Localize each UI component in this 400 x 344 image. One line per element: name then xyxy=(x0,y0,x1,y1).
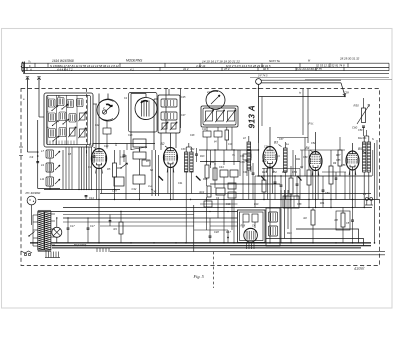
svg-text:C13: C13 xyxy=(228,144,233,146)
svg-text:C22: C22 xyxy=(95,124,100,127)
tube B2 envelope xyxy=(164,148,178,168)
svg-text:C58: C58 xyxy=(344,91,349,95)
svg-text:C37: C37 xyxy=(279,138,284,141)
svg-text:R13: R13 xyxy=(200,155,205,158)
capacitor C19 xyxy=(93,155,96,157)
choke box xyxy=(266,208,280,246)
svg-text:1616 W167868: 1616 W167868 xyxy=(52,59,74,63)
svg-text:B2: B2 xyxy=(161,142,165,146)
wire rail y211 xyxy=(51,211,238,213)
svg-text:41092: 41092 xyxy=(354,266,366,271)
tube B4 anode xyxy=(312,153,319,155)
capacitor C48 block xyxy=(252,214,258,222)
tube B1 grids xyxy=(94,153,104,155)
gang blob xyxy=(141,101,148,103)
legend extra rule right xyxy=(250,76,389,78)
chassis enclosure dashed border xyxy=(21,89,380,266)
wire speaker top xyxy=(364,135,369,137)
output transformer S13 winding b xyxy=(367,142,370,172)
mains plug xyxy=(365,198,368,201)
wire x120 mid xyxy=(119,150,121,165)
choke coil 1 xyxy=(269,212,278,222)
svg-text:913 A: 913 A xyxy=(248,105,257,129)
capacitor C4 xyxy=(36,161,39,163)
svg-text:C36: C36 xyxy=(240,155,245,158)
dial rod arrow xyxy=(343,93,346,96)
switch coil L10 xyxy=(46,177,54,186)
capacitor C32 xyxy=(133,175,145,184)
wire rectifier leads xyxy=(242,222,244,228)
resistor R28 xyxy=(329,166,333,184)
wire rail y199 xyxy=(38,199,380,201)
bus line 4 xyxy=(110,251,385,253)
svg-text:C33: C33 xyxy=(181,148,186,151)
svg-text:14.15 16.17.18 19 20 21 22: 14.15 16.17.18 19 20 21 22 xyxy=(202,59,240,63)
wire x300 xyxy=(299,169,301,200)
svg-text:0 F 74.5: 0 F 74.5 xyxy=(258,74,268,78)
switch contact S12 xyxy=(121,163,128,168)
capacitor C46 xyxy=(216,188,225,195)
T1 trimmer 2 xyxy=(171,123,176,129)
coil L2 xyxy=(58,98,65,106)
wire x240 xyxy=(239,150,241,176)
tube B2 cathode xyxy=(168,162,173,164)
capacitor C43 xyxy=(228,183,236,189)
wire rail y207 xyxy=(63,207,372,209)
tube B5 cathode xyxy=(350,165,355,167)
antenna lead wire xyxy=(27,89,29,152)
svg-text:Bf (T1000): Bf (T1000) xyxy=(74,243,86,247)
svg-text:R27: R27 xyxy=(336,154,341,157)
oscillator box inner xyxy=(203,108,236,125)
resistor R10 xyxy=(205,165,209,178)
wire T1 verticals xyxy=(160,133,162,150)
svg-text:C48: C48 xyxy=(243,171,248,174)
wire rail y218 xyxy=(63,217,238,219)
svg-text:C25: C25 xyxy=(181,96,186,99)
dial drive pulley xyxy=(256,79,262,85)
legend table rules xyxy=(22,62,389,64)
wire B4 pin wires xyxy=(312,170,314,200)
capacitor C17b xyxy=(87,227,90,229)
wedge under B3 left xyxy=(261,176,265,181)
oscillator box outer xyxy=(201,106,238,127)
svg-text:C17: C17 xyxy=(90,225,95,228)
bus chassis line 2 xyxy=(52,245,371,247)
capacitor C41 xyxy=(228,192,236,198)
capacitor C31 box xyxy=(133,152,146,159)
wire x232 osc xyxy=(231,127,233,150)
svg-text:R18: R18 xyxy=(241,225,246,228)
svg-text:9 21.23.24 60.47.75: 9 21.23.24 60.47.75 xyxy=(296,67,322,71)
wire T1 left xyxy=(154,98,158,100)
capacitor C57 xyxy=(351,219,354,221)
dark wedge right of T2 xyxy=(196,176,201,181)
wire B5 pin wires xyxy=(349,169,351,200)
wire osc bottom leads xyxy=(206,127,208,131)
svg-text:MODERNS: MODERNS xyxy=(126,59,143,63)
wire pulley stem xyxy=(258,84,260,143)
wire x262 xyxy=(261,97,263,127)
capacitor C54 xyxy=(280,184,283,186)
capacitor C38b xyxy=(243,154,251,160)
svg-text:C50: C50 xyxy=(303,156,308,159)
switch coil L9 xyxy=(46,163,54,172)
antenna terminal xyxy=(27,78,29,90)
svg-text:R16: R16 xyxy=(287,232,292,235)
tube B2 grids xyxy=(166,152,176,154)
IF transformer T2 primary winding xyxy=(185,152,188,172)
earth terminal xyxy=(38,78,40,90)
legend extra rule right 2 xyxy=(305,78,392,80)
wire x251 xyxy=(250,150,252,158)
legend ticks upper xyxy=(34,63,36,67)
wire bundle bus xyxy=(44,189,120,191)
svg-text:C20: C20 xyxy=(104,145,109,148)
tube B4 grids xyxy=(311,155,321,157)
junction x228 xyxy=(227,237,229,239)
svg-text:R2: R2 xyxy=(304,216,308,220)
bus junction dots xyxy=(37,242,39,244)
wire lamp leads xyxy=(56,218,58,227)
tube B5 envelope xyxy=(346,151,359,170)
IF transformer T3 primary winding xyxy=(247,142,251,170)
svg-text:C55: C55 xyxy=(336,159,341,162)
coil L6b xyxy=(59,128,66,137)
wire x238b xyxy=(237,150,239,162)
tube B2 anode xyxy=(167,150,174,152)
junction dots psu rails xyxy=(56,217,57,218)
resistor R11 xyxy=(213,168,217,180)
svg-text:C39: C39 xyxy=(240,161,245,164)
switch arrow b xyxy=(62,104,68,109)
legend table left brace xyxy=(21,62,23,72)
svg-text:60a 60b: 60a 60b xyxy=(358,138,367,140)
border tick y147 xyxy=(19,146,23,148)
capacitor C12 xyxy=(214,131,222,137)
resistor R4 xyxy=(119,222,123,234)
wire tone stem xyxy=(363,98,365,108)
svg-text:C32: C32 xyxy=(132,187,137,191)
tube B3 pins xyxy=(266,167,269,173)
wire x258 down xyxy=(258,143,260,176)
resistor R22 xyxy=(338,150,342,166)
wire B4 B5 link y172 xyxy=(322,171,346,173)
junction dots rail y199 xyxy=(98,199,99,200)
wire x131 xyxy=(130,94,132,151)
phono extension dashed lead xyxy=(213,252,215,288)
coil box bottom ticks xyxy=(49,141,51,145)
capacitor C42b xyxy=(204,201,212,207)
svg-text:C44: C44 xyxy=(219,166,224,169)
IF transformer T3 secondary winding xyxy=(284,148,288,172)
earth lead wire xyxy=(38,89,40,117)
svg-text:R24: R24 xyxy=(262,170,267,174)
capacitor C17a xyxy=(67,227,70,229)
svg-text:C52: C52 xyxy=(272,170,277,174)
capacitor C47 block xyxy=(243,214,249,222)
IF transformer T1 box xyxy=(158,95,180,133)
tube B4 pins xyxy=(311,170,314,176)
wave switch rotor SK1 xyxy=(97,99,119,121)
trimmer C2 xyxy=(80,113,86,120)
wire B2 cathode down xyxy=(170,168,172,200)
wire B5 stem xyxy=(352,143,354,151)
wire y203 run xyxy=(200,203,238,205)
capacitor C51 xyxy=(274,181,277,183)
resistor R23 xyxy=(341,213,345,227)
capacitor C11 xyxy=(203,131,211,137)
svg-text:C27: C27 xyxy=(181,114,186,117)
tone control R30 xyxy=(362,108,366,123)
coil L5b xyxy=(69,114,76,123)
wire coil box mid verticals xyxy=(65,147,67,190)
rectifier box outer xyxy=(238,210,266,243)
wire top bus y96 xyxy=(259,96,346,98)
wire B1 pin wires xyxy=(95,168,97,200)
resistor R8 xyxy=(225,130,229,140)
tube B2 pins xyxy=(166,167,169,173)
T1 trimmer 1 xyxy=(162,123,167,129)
bus chassis line 1 xyxy=(30,242,371,244)
tube B5 anode xyxy=(349,153,356,155)
bus line 5 xyxy=(230,254,385,256)
junction dots avc xyxy=(206,161,207,162)
svg-text:B3: B3 xyxy=(274,141,278,145)
svg-text:C56: C56 xyxy=(341,164,346,167)
capacitor C7 xyxy=(114,177,124,186)
tube B3 grids xyxy=(265,151,275,153)
padder C8 xyxy=(206,111,213,121)
transformer taps right xyxy=(51,213,55,215)
wire T3 primary leads xyxy=(248,136,250,142)
switch arrow a xyxy=(52,106,58,111)
svg-text:92 8: 92 8 xyxy=(263,67,269,71)
resistor R27 xyxy=(307,170,311,185)
wire y222 run xyxy=(63,221,194,223)
coil assembly box outer xyxy=(44,93,93,147)
capacitor C29 box xyxy=(133,139,146,147)
wire AVC line xyxy=(93,143,155,145)
nested box corner 2 xyxy=(266,239,364,246)
wire cluster verticals xyxy=(139,147,141,152)
wire to bus xyxy=(38,188,60,190)
switch arrow d xyxy=(63,119,69,124)
svg-text:C40: C40 xyxy=(255,175,260,178)
wire gang top xyxy=(145,94,147,98)
wedge under B3 right xyxy=(298,176,302,181)
gang capacitor C5 can xyxy=(129,93,158,133)
wire y150 run xyxy=(199,149,258,151)
rectifier tube B8 xyxy=(244,229,258,243)
wire C24 leads xyxy=(106,121,108,128)
svg-text:4 12 14: 4 12 14 xyxy=(196,64,206,68)
wire x180.5 xyxy=(180,89,182,129)
svg-text:S: S xyxy=(372,137,374,141)
capacitor C60 xyxy=(362,125,365,127)
svg-text:C34: C34 xyxy=(190,148,195,151)
wire y176 run xyxy=(258,175,372,177)
tube B4 side electrodes xyxy=(309,158,311,164)
padder C9 xyxy=(217,111,224,121)
capacitor C39 xyxy=(246,159,249,161)
capacitor C16b xyxy=(109,220,112,222)
svg-text:R21: R21 xyxy=(296,158,301,161)
svg-text:B1: B1 xyxy=(89,143,93,147)
T1 primary coil xyxy=(161,99,177,107)
switch arrow c xyxy=(53,121,59,126)
wire T2 leads xyxy=(185,147,187,152)
rectifier box inner xyxy=(240,212,264,241)
wire x345 down xyxy=(344,172,346,200)
wire y230 run xyxy=(194,229,228,231)
capacitor C24 xyxy=(103,128,111,134)
svg-text:C58: C58 xyxy=(297,203,302,206)
output coupling box xyxy=(283,196,299,208)
capacitor C34b xyxy=(142,160,150,166)
mains cord xyxy=(21,251,32,253)
coil box internal wires xyxy=(47,96,49,145)
wire B1 cathode down xyxy=(98,169,100,243)
choke coil 2 xyxy=(269,226,278,236)
svg-text:PC 40/90Ω: PC 40/90Ω xyxy=(26,191,42,195)
switch rotor blob xyxy=(106,104,111,107)
svg-text:B4: B4 xyxy=(306,146,310,150)
wire vertical x193 xyxy=(193,205,195,252)
transformer core lines xyxy=(38,209,51,211)
svg-text:C4: C4 xyxy=(30,155,34,159)
wire B5 cathode down xyxy=(352,170,354,208)
capacitor C44 xyxy=(220,170,228,177)
gang capacitor C5 xyxy=(135,98,157,120)
svg-text:C23: C23 xyxy=(128,134,133,137)
svg-text:28.29.30.31.32: 28.29.30.31.32 xyxy=(339,57,360,61)
wire B4 cathode down xyxy=(315,171,317,208)
mains transformer primary winding xyxy=(38,212,44,251)
resistor R12 xyxy=(207,186,211,197)
page scan edge xyxy=(2,29,393,309)
coil assembly box inner xyxy=(46,95,90,144)
coil L6 xyxy=(49,129,56,138)
padder C10 xyxy=(228,111,235,121)
wire x232 lower xyxy=(231,200,233,231)
svg-text:C48: C48 xyxy=(214,230,219,234)
oscillator gang C6 xyxy=(206,91,225,110)
transformer taps left xyxy=(33,214,38,216)
tube B3 anode xyxy=(266,149,273,151)
mechanical link dashed S1 xyxy=(86,89,88,157)
svg-text:4 1: 4 1 xyxy=(130,67,134,71)
svg-text:R15: R15 xyxy=(203,178,208,181)
svg-text:C60: C60 xyxy=(352,126,358,130)
wire R5 xyxy=(114,150,116,163)
wire output verticals xyxy=(280,190,282,243)
module box R23 xyxy=(336,211,350,230)
capacitor C33 xyxy=(123,154,126,156)
svg-text:C42: C42 xyxy=(152,191,157,194)
tube B1 envelope xyxy=(91,149,106,169)
border tick y155 xyxy=(19,155,23,157)
wire x302 xyxy=(301,150,303,169)
dark wedge left of T2 xyxy=(159,176,164,181)
svg-text:C38: C38 xyxy=(264,146,269,149)
svg-text:2: 2 xyxy=(102,106,105,110)
svg-text:Fig. 5: Fig. 5 xyxy=(193,274,205,279)
resistor R20 xyxy=(262,180,266,192)
tube B4 envelope xyxy=(309,152,322,171)
wire right edge bundle xyxy=(374,143,376,243)
wire grid lead C4 xyxy=(37,120,39,189)
svg-text:Pu: Pu xyxy=(114,142,118,146)
svg-text:P.U.: P.U. xyxy=(309,122,315,126)
mechanical link S2 xyxy=(165,89,167,134)
tube B1 pins xyxy=(95,168,98,174)
wire y168 run xyxy=(262,168,300,170)
wire y226b run xyxy=(210,225,238,227)
wire avc verticals xyxy=(206,150,208,165)
capacitor C14 xyxy=(85,195,88,197)
wire rotor lead xyxy=(107,94,109,100)
IF transformer T2 secondary winding xyxy=(190,152,193,172)
junction dots right rail xyxy=(263,175,264,176)
switch arrow over C29 xyxy=(131,147,147,150)
tube B2 side electrodes xyxy=(164,155,166,161)
capacitor C36 xyxy=(195,153,198,155)
capacitor C55 xyxy=(296,183,299,185)
wire x305 xyxy=(304,138,306,177)
switch coil L8 xyxy=(46,150,54,158)
coil L4 xyxy=(49,113,56,122)
wire phono to transformer xyxy=(31,212,33,225)
wire x243 xyxy=(242,161,244,200)
resistor R5 xyxy=(113,163,117,177)
svg-text:R19: R19 xyxy=(254,203,259,206)
coil L5 xyxy=(59,112,66,121)
capacitor C56 xyxy=(322,189,325,191)
svg-text:R25: R25 xyxy=(282,170,287,174)
trimmer C3 xyxy=(70,128,76,136)
wire x126 mid xyxy=(125,155,127,200)
svg-text:R30: R30 xyxy=(354,104,360,108)
svg-text:21: 21 xyxy=(206,91,210,94)
nested box corner 1 xyxy=(296,229,359,243)
svg-text:R24: R24 xyxy=(262,160,267,163)
svg-text:R5: R5 xyxy=(107,167,111,171)
wire y137 run xyxy=(277,137,308,139)
wire y161 run xyxy=(200,161,240,163)
dial drive rod xyxy=(261,79,341,81)
tube B1 cathode xyxy=(97,163,102,165)
wire HT rail y184 xyxy=(210,183,280,185)
tube B1 anode xyxy=(95,151,102,153)
coil L1 xyxy=(49,99,56,107)
resistor R26 xyxy=(289,178,293,194)
capacitor C49 xyxy=(209,235,212,237)
svg-text:R17: R17 xyxy=(226,230,231,234)
svg-text:C30: C30 xyxy=(120,156,125,159)
junction dots osc rails xyxy=(209,211,210,212)
resistor R29 xyxy=(311,210,315,225)
wire y150 right run xyxy=(300,149,345,151)
wire x96 pair xyxy=(95,104,97,148)
wire B2 pin wires xyxy=(167,167,169,194)
wire top right verticals xyxy=(302,89,304,135)
wire x218 lower xyxy=(217,200,219,219)
wire R20 xyxy=(263,192,265,200)
coupling box detail xyxy=(285,196,287,208)
wire B3 pin wires xyxy=(266,167,268,200)
tube B3 cathode xyxy=(268,161,273,163)
